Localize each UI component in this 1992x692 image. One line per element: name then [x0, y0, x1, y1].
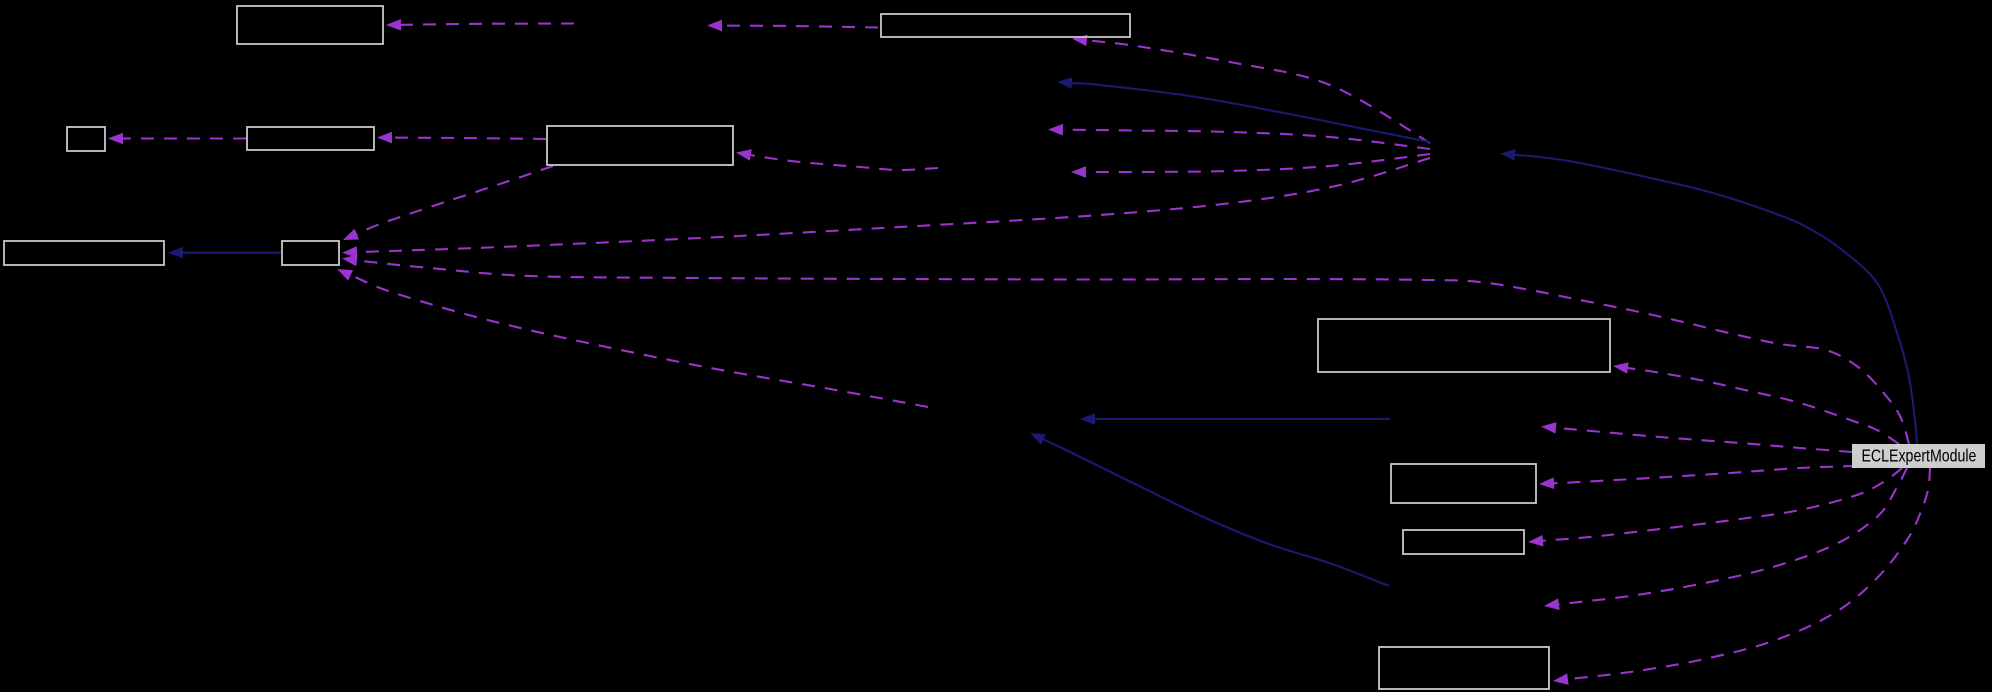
edge C to node B (dashed) — [108, 133, 246, 145]
edge hub to node G (dashed) — [1072, 35, 1430, 143]
edge G to node X1 (dashed) — [707, 20, 878, 32]
node I (undocumented class box) — [1391, 464, 1536, 503]
edge M to node N4 (dashed) — [1541, 422, 1852, 452]
edge M to node N8 (dashed) — [1544, 468, 1907, 610]
edge X1 to node A (dashed) — [386, 19, 574, 31]
edge hub to node N3 (dashed) — [1071, 154, 1430, 178]
node B (undocumented class box) — [67, 127, 105, 151]
node J (undocumented class box) — [1403, 530, 1524, 554]
edge N4 to node N5 inheritance (solid) — [1080, 413, 1390, 425]
node G (undocumented class box) — [881, 14, 1130, 37]
node A (undocumented class box) — [237, 6, 383, 44]
edge M to node H (dashed) — [1613, 362, 1899, 444]
edge M to node E long (dashed) — [342, 255, 1909, 444]
node F (undocumented class box) — [547, 126, 733, 165]
node ECLExpertModule (current class, filled) — [1852, 444, 1985, 468]
edge N5 to node E (dashed) — [337, 269, 928, 407]
edge M to node J (dashed) — [1528, 468, 1902, 547]
edge E to node D inheritance (solid) — [168, 247, 281, 259]
node H (undocumented class box) — [1318, 319, 1610, 372]
edge M to node K (dashed) — [1553, 468, 1930, 685]
edge hub to node N2 (dashed) — [1048, 124, 1430, 149]
svg-text:ECLExpertModule: ECLExpertModule — [1861, 447, 1976, 466]
node D (undocumented class box) — [4, 241, 164, 265]
node E (undocumented class box) — [282, 241, 339, 265]
node K (undocumented class box) — [1379, 647, 1549, 689]
edge M to node I (dashed) — [1539, 466, 1856, 489]
edge N8 to node N5 inheritance (solid) — [1030, 433, 1389, 586]
node C (undocumented class box) — [247, 127, 374, 150]
edge F to node C (dashed) — [377, 132, 546, 144]
edge F to node E (dashed) — [343, 166, 553, 240]
edge hub to node N1 inheritance (solid) — [1057, 77, 1430, 142]
edge N3 to node F (dashed) — [736, 149, 938, 170]
edge M to hub inheritance (solid) — [1500, 149, 1917, 444]
edge hub to node E (dashed) — [342, 158, 1430, 258]
